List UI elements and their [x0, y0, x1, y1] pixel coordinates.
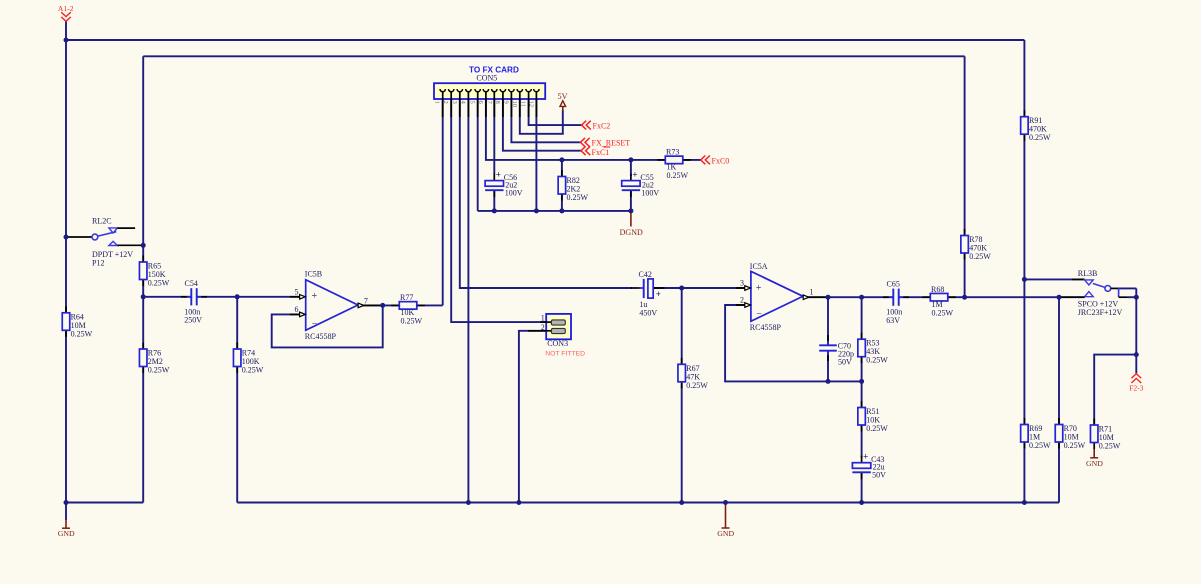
svg-text:0.25W: 0.25W: [71, 329, 93, 338]
node pin12 DGND: [534, 208, 539, 213]
wire C70 vertical: [827, 297, 829, 344]
svg-text:R68: R68: [931, 285, 944, 294]
svg-text:0.25W: 0.25W: [932, 309, 954, 318]
svg-text:R73: R73: [666, 148, 679, 157]
connector CON3: [546, 314, 571, 339]
connector CON5: [434, 66, 545, 99]
pin 2 of CON3: [528, 323, 565, 333]
port F2-3: [1129, 374, 1144, 393]
pin 9 of CON5: [502, 89, 514, 117]
node C42 right: [679, 286, 684, 291]
relay switch RL3B: [1060, 269, 1128, 317]
svg-text:450V: 450V: [639, 308, 657, 317]
resistor R69: [1021, 418, 1051, 450]
wire relay common bracket: [1119, 288, 1137, 354]
svg-text:0.25W: 0.25W: [148, 366, 170, 375]
svg-text:10: 10: [511, 101, 518, 108]
pin 3 of CON5: [451, 89, 463, 117]
wire CON5 pin 4 vertical to ground rail: [467, 99, 469, 503]
capacitor C42: [631, 270, 665, 318]
svg-text:−: −: [756, 309, 762, 320]
node relay common: [1134, 295, 1139, 300]
resistor R76: [139, 343, 169, 375]
node C54 left: [141, 294, 146, 299]
pin 8 of CON5: [494, 89, 506, 117]
svg-text:2: 2: [442, 101, 449, 104]
pin 1 of CON3: [540, 314, 565, 326]
svg-text:0.25W: 0.25W: [148, 279, 170, 288]
svg-text:NOT FITTED: NOT FITTED: [545, 351, 585, 358]
wire left vertical through R65 R76: [142, 56, 144, 502]
power GND left: [58, 503, 75, 538]
svg-text:−: −: [312, 319, 318, 330]
wire C55 vertical: [630, 160, 632, 176]
svg-text:CON3: CON3: [547, 339, 568, 348]
wire C56 bottom to DGND rail: [493, 191, 495, 211]
port FX_RESET: [580, 138, 630, 148]
node C70 bottom: [826, 379, 831, 384]
svg-text:3: 3: [740, 279, 744, 288]
wire junction to R71: [1094, 355, 1136, 425]
resistor R65: [139, 256, 169, 288]
svg-text:P12: P12: [92, 258, 104, 267]
node C55 bottom DGND: [628, 208, 633, 213]
node C56 bottom: [492, 208, 497, 213]
wire R77 to CON5 pin 1: [417, 304, 443, 306]
node R70 top: [1057, 295, 1062, 300]
svg-text:50V: 50V: [872, 471, 886, 480]
wire CON5 pin 2 to CON3 pin 1: [451, 99, 551, 322]
node R69 bottom rail: [1022, 500, 1027, 505]
pin 2 of CON5: [442, 89, 454, 117]
port A1-2: [58, 4, 74, 22]
wire DGND rail: [478, 210, 631, 212]
wire IC5B output to R77: [362, 304, 399, 306]
svg-text:RL2C: RL2C: [92, 217, 112, 226]
wire top rail 1: [66, 39, 1024, 41]
svg-text:+: +: [756, 283, 762, 294]
svg-text:CON5: CON5: [476, 73, 497, 82]
pin 5 of IC5B: [290, 287, 305, 299]
svg-text:0.25W: 0.25W: [1064, 441, 1086, 450]
svg-text:11: 11: [520, 101, 527, 107]
power GND at R71: [1086, 449, 1103, 468]
resistor R68: [922, 285, 956, 318]
node R53 top: [859, 295, 864, 300]
resistor R70: [1055, 418, 1085, 450]
resistor R64: [62, 306, 92, 338]
wire right vertical through R91 R69: [1023, 40, 1025, 503]
wire C42 to IC5A pin 3: [653, 287, 746, 289]
wire bottom ground rail: [237, 502, 1059, 504]
svg-text:0.25W: 0.25W: [969, 252, 991, 261]
svg-text:0.25W: 0.25W: [686, 381, 708, 390]
svg-text:0.25W: 0.25W: [866, 424, 888, 433]
svg-text:R77: R77: [400, 293, 413, 302]
node R78 bottom: [962, 295, 967, 300]
pin 1 output of IC5A: [803, 287, 827, 299]
capacitor C65: [883, 280, 909, 326]
port FxC0: [701, 156, 730, 166]
svg-text:0.25W: 0.25W: [1099, 442, 1121, 451]
wire R67 vertical: [681, 288, 683, 503]
svg-text:JRC23F+12V: JRC23F+12V: [1078, 308, 1123, 317]
svg-text:1: 1: [434, 101, 441, 104]
svg-text:5: 5: [295, 287, 299, 296]
pin 2 of IC5A: [736, 296, 751, 308]
pin 1 of CON5: [434, 89, 446, 117]
wire top rail 2: [143, 55, 964, 57]
wire junction to F2-3 port: [1135, 355, 1137, 374]
pin 12 of CON5: [527, 89, 539, 117]
node C55 top: [628, 157, 633, 162]
svg-text:+: +: [632, 169, 637, 179]
pin 3 of IC5A: [736, 279, 751, 291]
pin 7 of CON5: [485, 89, 497, 117]
wire vertical through R74: [236, 297, 238, 503]
power 5V: [557, 92, 567, 111]
node GND middle: [723, 500, 728, 505]
node CON3 pin2 ground: [516, 500, 521, 505]
wire IC5A output row to RL3B: [806, 296, 893, 298]
svg-text:+: +: [656, 289, 661, 299]
capacitor C55: [622, 169, 660, 197]
wire CON5 pin 5 vertical: [477, 99, 479, 211]
resistor R74: [233, 343, 263, 375]
svg-text:+: +: [312, 291, 318, 302]
svg-text:C65: C65: [887, 280, 900, 289]
wire R53 R51 C43 vertical: [861, 297, 863, 458]
node IC5B output: [380, 303, 385, 308]
pin 4 of CON5: [459, 89, 471, 117]
node R82 bottom: [559, 208, 564, 213]
svg-text:0.25W: 0.25W: [667, 171, 689, 180]
resistor R71: [1090, 419, 1120, 451]
svg-text:+: +: [496, 169, 501, 179]
svg-text:C54: C54: [185, 279, 198, 288]
svg-text:250V: 250V: [184, 316, 202, 325]
wire CON5 pin 12 vertical to DGND rail: [535, 99, 537, 211]
node C70 top: [826, 295, 831, 300]
wire RL3B upper contact to R91 net: [1024, 278, 1084, 280]
svg-text:7: 7: [364, 297, 368, 306]
wire main left vertical net A1-2: [65, 22, 67, 503]
svg-text:100V: 100V: [505, 189, 523, 198]
node switch RL2C left: [64, 235, 69, 240]
resistor R91: [1021, 110, 1051, 142]
resistor R53: [858, 333, 888, 365]
svg-text:0.25W: 0.25W: [1029, 441, 1051, 450]
svg-text:6: 6: [295, 305, 299, 314]
wire CON5 pin 9 to FX_RESET: [511, 99, 580, 142]
svg-text:+: +: [863, 452, 868, 462]
svg-text:12: 12: [527, 101, 534, 108]
pin 10 of CON5: [511, 89, 523, 117]
node RL2C lower contact: [141, 243, 146, 248]
power GND middle: [717, 503, 734, 539]
pin 6 of IC5B: [290, 305, 305, 317]
svg-text:GND: GND: [58, 529, 75, 538]
svg-text:GND: GND: [1086, 459, 1103, 468]
wire CON5 pin 10 to 5V: [520, 99, 563, 134]
svg-text:GND: GND: [717, 529, 734, 538]
svg-text:2: 2: [541, 323, 545, 332]
wire bottom-left ground rail: [66, 502, 143, 504]
svg-text:FxC2: FxC2: [593, 121, 611, 130]
wire CON5 pin 11 to FxC2: [529, 99, 582, 125]
port FxC2: [582, 121, 611, 131]
wire CON5 pin 8 to FxC1: [503, 99, 581, 151]
node R91 RL3B upper: [1022, 277, 1027, 282]
wire IC5B pin 6 feedback loop: [272, 305, 383, 347]
svg-text:IC5A: IC5A: [750, 262, 768, 271]
svg-text:C42: C42: [639, 270, 652, 279]
node GND left: [64, 500, 69, 505]
wire CON5 pin 6 to R82 C55 R73 rail: [486, 99, 665, 160]
svg-text:A1-2: A1-2: [58, 4, 74, 13]
wire CON3 pin 2 to ground rail: [519, 331, 552, 503]
svg-text:IC5B: IC5B: [305, 269, 322, 278]
capacitor C43: [852, 452, 886, 480]
svg-text:0.25W: 0.25W: [242, 366, 264, 375]
wire CON5 pin 7 to C56: [493, 99, 495, 174]
pin 5 of CON5: [469, 89, 481, 117]
svg-text:100V: 100V: [641, 189, 659, 198]
svg-text:63V: 63V: [886, 316, 900, 325]
svg-text:1: 1: [541, 314, 545, 323]
svg-text:1: 1: [810, 287, 814, 296]
wire R73 to FxC0: [683, 159, 701, 161]
resistor R82: [558, 170, 588, 202]
node C43 bottom: [859, 500, 864, 505]
svg-text:FxC0: FxC0: [712, 156, 730, 165]
wire IC5A pin 2 feedback loop: [725, 305, 862, 381]
wire vertical through R78: [964, 56, 966, 297]
node F2-3 junction: [1134, 352, 1139, 357]
pin 11 of CON5: [520, 89, 532, 117]
relay switch RL2C: [67, 217, 143, 268]
node pin4 ground: [466, 500, 471, 505]
node A1-2 / top rail: [64, 38, 69, 43]
node R67 bottom: [679, 500, 684, 505]
svg-text:RC4558P: RC4558P: [750, 323, 782, 332]
wire R70 vertical: [1058, 297, 1060, 502]
svg-text:0.25W: 0.25W: [401, 317, 423, 326]
svg-text:5V: 5V: [557, 92, 567, 101]
resistor R77: [391, 293, 425, 326]
svg-text:F2-3: F2-3: [1129, 384, 1144, 393]
node C54 right: [235, 294, 240, 299]
power DGND: [620, 211, 643, 237]
capacitor C56: [485, 169, 523, 197]
wire C54 row to IC5B pin 5: [143, 296, 190, 298]
wire R82 vertical: [561, 160, 563, 211]
op-amp IC5B: [305, 269, 358, 341]
svg-text:2: 2: [740, 296, 744, 305]
wire CON5 pin 3 to C42: [460, 99, 632, 288]
capacitor C54: [181, 279, 207, 325]
svg-text:RL3B: RL3B: [1078, 269, 1098, 278]
node R82 top: [559, 157, 564, 162]
resistor R73: [657, 148, 691, 181]
svg-text:DGND: DGND: [620, 228, 643, 237]
pin 6 of CON5: [477, 89, 489, 117]
resistor R78: [961, 229, 991, 261]
svg-text:50V: 50V: [838, 358, 852, 367]
svg-text:0.25W: 0.25W: [866, 356, 888, 365]
port FxC1: [581, 146, 610, 157]
svg-text:FX_RESET: FX_RESET: [592, 139, 631, 148]
svg-text:FxC1: FxC1: [592, 148, 610, 157]
capacitor C70: [819, 335, 854, 367]
node R53 bottom: [859, 379, 864, 384]
resistor R67: [678, 358, 708, 390]
wire CON5 pin 1 vertical: [442, 99, 444, 305]
resistor R51: [858, 401, 888, 433]
pin 7 output of IC5B: [358, 297, 382, 308]
svg-text:0.25W: 0.25W: [1029, 133, 1051, 142]
svg-text:0.25W: 0.25W: [567, 193, 589, 202]
svg-text:RC4558P: RC4558P: [305, 332, 337, 341]
op-amp IC5A: [750, 262, 803, 332]
